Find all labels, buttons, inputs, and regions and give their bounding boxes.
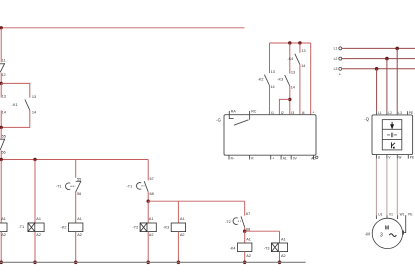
wire top supply rail (1, 27, 244, 29)
wire K1 coil to rail (0, 232, 2, 263)
svg-text:I3: I3 (291, 111, 294, 115)
svg-text:L1: L1 (334, 47, 338, 51)
node bus-T1 (33, 158, 36, 161)
svg-text:A1: A1 (281, 237, 286, 241)
svg-text:68: 68 (150, 192, 154, 196)
svg-text:L2: L2 (334, 57, 338, 61)
node mid rail K4 (298, 41, 301, 44)
wire T3 coil drop (279, 231, 281, 243)
thermal release symbol (391, 122, 394, 128)
wire I2 jumper (279, 99, 289, 114)
svg-text:A1: A1 (77, 217, 82, 221)
wire K4 coil to rail (244, 252, 246, 263)
svg-text:-K2: -K2 (258, 78, 264, 82)
motor M circle (372, 218, 402, 248)
svg-text:A2: A2 (281, 254, 286, 258)
svg-text:55: 55 (2, 135, 6, 139)
motor terminals (376, 215, 405, 219)
svg-text:I2: I2 (281, 111, 284, 115)
wire T1 coil drop (34, 160, 36, 224)
contact T1 NO delayed 67/68 (137, 181, 149, 192)
wire K1 coil drop (0, 160, 2, 224)
wire K4 sense drop (299, 43, 301, 115)
wire T2 coil to rail (147, 232, 149, 263)
wire plus drop (310, 43, 312, 115)
svg-text:-K3: -K3 (163, 225, 169, 229)
svg-text:A1: A1 (246, 237, 251, 241)
svg-text:12: 12 (1, 73, 5, 77)
coil K2 (69, 223, 83, 232)
wire L2 drop (386, 59, 388, 112)
wire to K4 node (244, 227, 246, 231)
terminal R (249, 155, 251, 159)
svg-text:13: 13 (32, 95, 36, 99)
breaker inner module (382, 120, 402, 150)
wire K2 drop upper (75, 160, 77, 178)
svg-text:A1: A1 (1, 217, 6, 221)
wire T2 branch drop (147, 160, 149, 181)
node junction top-left (0, 26, 3, 29)
svg-text:RA: RA (231, 110, 237, 114)
svg-text:W1: W1 (400, 212, 405, 216)
node L2 tap (385, 57, 389, 61)
coil K4 (238, 243, 252, 252)
svg-text:-M: -M (365, 232, 370, 237)
wire start contact lower (0, 110, 2, 127)
svg-text:56: 56 (1, 150, 5, 154)
svg-text:56: 56 (77, 192, 81, 196)
svg-text:A1: A1 (283, 157, 287, 161)
node L3 tap (375, 67, 379, 71)
wire T1 coil to rail (34, 232, 36, 263)
contact NC 55/56 (0, 139, 5, 150)
wire motor feed W (396, 159, 398, 216)
svg-text:-K2: -K2 (61, 225, 67, 229)
contact T2 NO delayed 67/68 (233, 216, 245, 227)
svg-text:I1: I1 (271, 111, 274, 115)
svg-text:×: × (339, 72, 341, 76)
svg-text:W: W (398, 155, 401, 159)
breaker Q bottom terminals (376, 155, 408, 159)
wire K3 sense drop (289, 43, 291, 115)
node K4/T3 (243, 230, 246, 233)
svg-text:-T1: -T1 (18, 225, 24, 229)
svg-text:13: 13 (2, 94, 6, 98)
wire motor feed V (386, 159, 388, 216)
wire K2 drop lower to coil (75, 192, 77, 223)
wire main line to bus (0, 150, 2, 159)
svg-text:-T1: -T1 (126, 184, 132, 188)
wire T2 contact drop (244, 201, 246, 215)
wire K3 coil drop (177, 201, 179, 223)
svg-text:R~: R~ (231, 157, 235, 161)
wire K2 coil to rail (75, 232, 77, 263)
wire main line between 12 and node (0, 73, 2, 84)
wire main line to 55 contact (0, 127, 2, 138)
svg-text:U1: U1 (378, 212, 382, 216)
svg-text:-K4: -K4 (230, 246, 236, 250)
wire main line upper segment (0, 28, 2, 63)
wire start contact upper (0, 83, 2, 97)
svg-text:14: 14 (32, 110, 36, 114)
coil T1 timer (28, 223, 44, 232)
node I2 jumper (288, 98, 291, 101)
terminal RA (229, 111, 233, 119)
wire L1 rail (342, 47, 415, 49)
wire T3 coil to rail (279, 252, 281, 263)
svg-text:14: 14 (2, 110, 6, 114)
svg-text:14: 14 (301, 64, 305, 68)
svg-text:-K1: -K1 (12, 103, 18, 107)
contact K3 NO (285, 75, 290, 86)
wire L3 drop (376, 69, 378, 111)
svg-text:A2: A2 (77, 233, 82, 237)
coil T2 timer (140, 223, 156, 232)
wire T2 coil drop (147, 201, 149, 223)
wire branch to K3 and T2 contact (148, 200, 245, 202)
svg-text:M: M (385, 226, 389, 232)
coil T3 timer (272, 243, 288, 252)
node bus-main (0, 158, 3, 161)
wire motor feed U (375, 159, 377, 216)
wire control bus (1, 159, 148, 161)
svg-text:A1: A1 (180, 217, 185, 221)
svg-text:3: 3 (380, 232, 383, 238)
coil K3 (171, 223, 185, 232)
contact K4 NO (295, 54, 300, 65)
breaker Q1 box (372, 115, 413, 155)
wire L2 rail (342, 58, 415, 60)
contact NC 11/12 stop (0, 63, 5, 72)
wire L3 rail (342, 68, 415, 70)
svg-text:-Q: -Q (364, 116, 369, 121)
svg-text:A1: A1 (36, 217, 41, 221)
svg-text:A2: A2 (180, 233, 185, 237)
wire to T2 node (147, 192, 149, 201)
svg-text:14: 14 (291, 85, 295, 89)
magnetic release symbol (387, 133, 397, 138)
svg-text:I4: I4 (302, 111, 305, 115)
coil K1 (0, 223, 7, 232)
svg-text:67: 67 (150, 177, 154, 181)
terminal AO (313, 155, 315, 159)
wire K4 coil drop (244, 231, 246, 243)
svg-text:-T3: -T3 (264, 246, 270, 250)
svg-text:+: + (312, 111, 314, 115)
svg-text:67: 67 (246, 212, 250, 216)
svg-text:L3: L3 (334, 67, 338, 71)
svg-text:55: 55 (77, 177, 81, 181)
svg-text:A2: A2 (36, 233, 41, 237)
terminal A1 bottom (280, 155, 282, 159)
wire K3 coil to rail (177, 232, 179, 263)
svg-text:-K4: -K4 (287, 57, 293, 61)
terminal RC (249, 111, 251, 120)
svg-text:PE: PE (408, 212, 412, 216)
node T2 branch (147, 200, 150, 203)
node mid rail K3 (288, 41, 291, 44)
terminal R~ (228, 155, 230, 159)
block G logic module (224, 115, 316, 156)
node N2 (0, 126, 3, 129)
svg-text:V1: V1 (389, 212, 393, 216)
relay contact inside G (234, 120, 249, 125)
wire bottom return rail (0, 261, 306, 263)
svg-text:13: 13 (291, 70, 295, 74)
svg-text:A2: A2 (1, 233, 6, 237)
svg-text:+: + (272, 157, 274, 161)
contact K2 NO (264, 75, 269, 86)
wire K1 latch branch (1, 83, 30, 127)
wire mid distribution rail (270, 42, 311, 44)
svg-text:A1: A1 (149, 217, 154, 221)
breaker switch symbol (392, 142, 396, 148)
svg-text:RC: RC (251, 110, 257, 114)
svg-text:14: 14 (270, 85, 274, 89)
svg-text:A2: A2 (149, 233, 154, 237)
wire PE hook (404, 218, 406, 232)
contact K1 aux 13/14 (25, 99, 30, 110)
wire K2 sense drop (269, 43, 271, 115)
svg-text:-T1: -T1 (56, 185, 62, 189)
contact T1 NC delayed 55/56 (66, 181, 81, 192)
svg-text:13: 13 (301, 49, 305, 53)
node N1 (0, 82, 3, 85)
svg-text:PE: PE (410, 155, 414, 159)
svg-text:-T2: -T2 (132, 225, 138, 229)
svg-text:-K3: -K3 (277, 78, 283, 82)
terminal plus bottom (270, 155, 272, 159)
breaker Q top terminals (377, 111, 408, 115)
node L1 tap (395, 47, 399, 51)
svg-text:-T2: -T2 (225, 220, 231, 224)
svg-text:13: 13 (271, 70, 275, 74)
wire branch to T3 (245, 230, 280, 232)
terminal 0V (290, 155, 292, 159)
svg-text:A2: A2 (246, 254, 251, 258)
svg-text:11: 11 (2, 58, 6, 62)
wire L1 drop (396, 48, 398, 111)
svg-text:-G: -G (216, 117, 221, 122)
